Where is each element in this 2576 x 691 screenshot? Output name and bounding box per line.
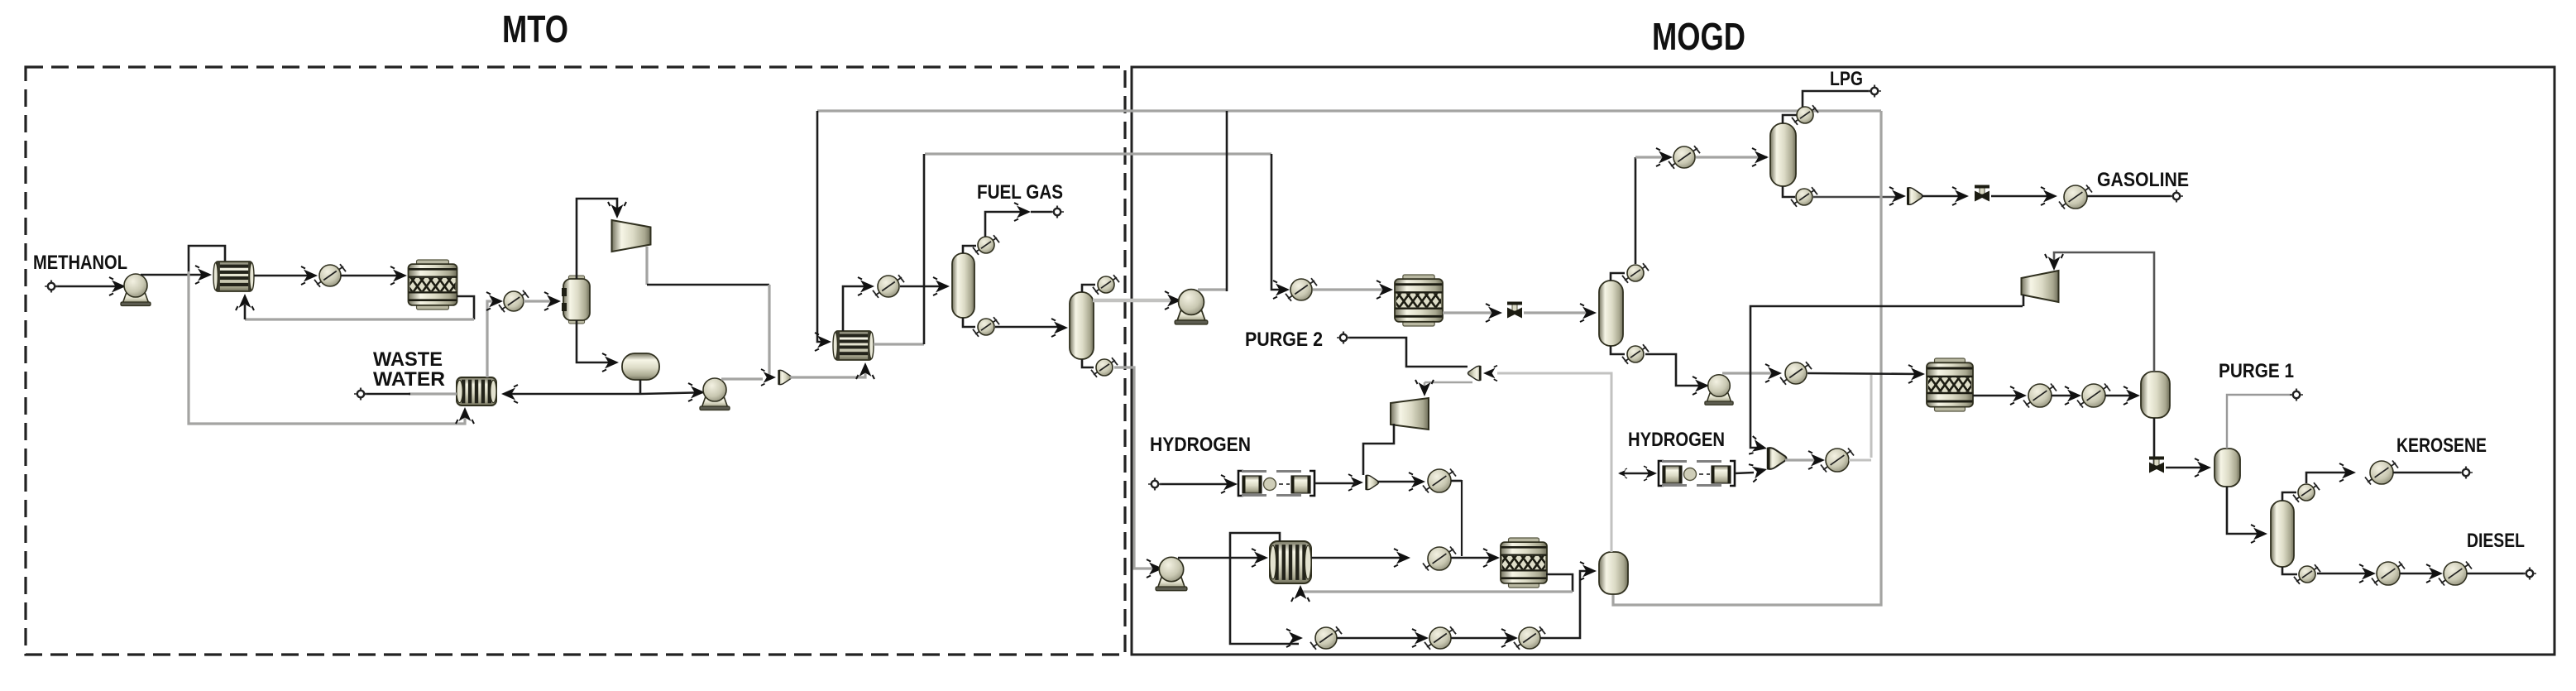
stream: E3 to column T1 (900, 286, 946, 288)
stream: K1 discharge down to junction (645, 247, 648, 285)
compressor K1 (612, 220, 651, 252)
stream: heavy recycle from flash F3 to line 1 (1613, 111, 1881, 605)
drum D1 (622, 353, 659, 380)
reactor R3 (hydrogenation) (1927, 358, 1973, 411)
stream: P2 discharge to junction (721, 377, 763, 380)
stream: HX3 hot outlet to line 2 (874, 343, 924, 345)
product terminator LPG (1868, 85, 1881, 98)
MOGD solid boundary box (1132, 67, 2554, 655)
stream: F3 vapor riser to splitter (1497, 373, 1611, 552)
stream: R3 effluent to cooler E8 (1973, 395, 2022, 397)
pump P1 (121, 274, 151, 306)
stream: E15 to E16 (1337, 637, 1424, 640)
stream: R2 effluent to valve (1443, 311, 1499, 314)
stream: E18 down to R4 feed (1451, 480, 1462, 482)
stream: K2 discharge to junction J3 (1363, 424, 1394, 475)
svg-text:HYDROGEN: HYDROGEN (1150, 434, 1251, 456)
stream: T5 overhead to condenser (2282, 492, 2296, 501)
reboiler of T1 (973, 317, 999, 337)
stream: GASOLINE product (2087, 195, 2171, 198)
stream: F4 liquid to column T5 (2227, 487, 2263, 534)
stream: DIESEL line to cooler E12 (2317, 573, 2371, 575)
column T1 (demethanizer) (952, 253, 974, 318)
stream: S1 to junction J3 (1314, 482, 1357, 485)
svg-text:METHANOL: METHANOL (33, 252, 127, 274)
heater E7 (1780, 362, 1812, 385)
stream: LPG product (1803, 91, 1870, 107)
stream: T3 overhead to condenser (1611, 273, 1625, 281)
splitter SP1 (1468, 366, 1481, 380)
stream: T4 bottoms to reboiler (1783, 186, 1795, 197)
stream: T2 bottoms to pump P4 (1114, 367, 1168, 569)
stream: E17 up to flash F3 (1540, 571, 1592, 638)
cooler E6 (2059, 185, 2092, 209)
stream: T2 bottoms to reboiler (1082, 359, 1094, 367)
feed terminator HYDROGEN 1 (1148, 478, 1161, 491)
heater E1 (314, 264, 346, 287)
stream: P5 to heater E7 (1722, 372, 1777, 374)
stream: SP1 to compressor K2 (1424, 381, 1472, 384)
product terminator PURGE 2 (1337, 332, 1350, 344)
cooler E9 (2077, 384, 2110, 408)
product terminator PURGE 1 (2290, 389, 2303, 401)
stream: V1 vapor to compressor K3 (2054, 252, 2154, 372)
cooler E17 (1514, 626, 1545, 650)
stream: V2 to cooler E6 (1991, 195, 2054, 198)
stream: E4 to reactor R2 (1313, 288, 1388, 290)
stream: P1 to HX1 (141, 274, 208, 276)
stream: HX4 to cooler E14 (1311, 557, 1406, 559)
stream: T3 bottoms to reboiler (1611, 346, 1625, 354)
stream: R1 effluent to HX1 cold inlet (457, 296, 474, 319)
column T4 (LPG column) (1770, 123, 1796, 186)
stream: T4 overhead to condenser (1783, 115, 1797, 123)
cooler E15 (1310, 626, 1342, 650)
stream: M2 to heater E10 (1785, 458, 1818, 461)
pump P2 (700, 378, 730, 410)
product terminator FUEL GAS (1051, 206, 1064, 218)
stream: S2 to mixer M2 (1735, 473, 1754, 473)
stream: H2 riser joins R3 feed (1870, 375, 1873, 458)
stream: hydrogen 2 feed (1620, 473, 1654, 475)
stream: HX4 hot outlet to cooler row (1230, 533, 1299, 644)
cooler E11 (2365, 461, 2398, 485)
stream: HX1 to heater E1 (254, 275, 314, 277)
product terminator KEROSENE (2459, 467, 2473, 479)
svg-text:GASOLINE: GASOLINE (2097, 169, 2189, 191)
feed terminator METHANOL (45, 281, 58, 293)
stream: E8 to cooler E9 (2052, 395, 2076, 397)
stream: R4 effluent to HX4 hot inlet (1546, 574, 1573, 592)
stream: T3 distillate to heater E5 (1635, 157, 1637, 264)
pump P5 (1705, 375, 1733, 405)
condenser of T5 (2293, 482, 2320, 502)
reboiler of T3 (1622, 344, 1649, 364)
stream: H2 mix joins before R4 (1461, 480, 1463, 556)
junction J2 on gasoline line (1889, 187, 1906, 205)
cooler E13 (2439, 562, 2472, 586)
pump P3 (recycle pump) (1175, 290, 1208, 324)
stream: J2 to valve V2 (1922, 195, 1964, 198)
stream: HX1 effluent loop to HX2 (hot side) (189, 246, 225, 273)
heat exchanger HX4 (feed/effluent) (1270, 541, 1311, 583)
stream: T1 bottoms to reboiler (963, 318, 975, 327)
stream: E9 to separator V1 (2105, 395, 2136, 397)
stream: E7 to reactor R3 (1808, 373, 1921, 374)
stream: V1 to column T3 (1524, 311, 1592, 314)
stream: T2 overhead to condenser (1082, 285, 1095, 292)
stream: K3 recycle to mixer M2 (1750, 306, 2023, 448)
reactor R1 (MTO fluid bed) (409, 260, 457, 310)
svg-text:DIESEL: DIESEL (2467, 530, 2525, 552)
stream: KEROSENE line to cooler E11 (2306, 473, 2352, 483)
condenser of T1 (973, 235, 999, 255)
cooler E14 (1423, 547, 1456, 571)
condenser of T2 (1093, 275, 1119, 295)
cooler E8 (2023, 384, 2056, 408)
reboiler of T5 (2294, 564, 2320, 584)
membrane separator S1 (hydrogen) (1238, 471, 1314, 496)
svg-text:WASTE: WASTE (373, 348, 443, 371)
stream: E5 to column T4 (1696, 156, 1767, 158)
stream: cross recycle line 1 (MOGD to MTO, y=134) (817, 109, 1881, 112)
stream: E2 to flash F1 (524, 300, 558, 302)
svg-text:MTO: MTO (502, 7, 568, 50)
stream: waste water product (409, 392, 457, 395)
svg-text:FUEL GAS: FUEL GAS (977, 181, 1063, 204)
column T3 (MOGD fractionator) (1599, 281, 1623, 346)
product terminator DIESEL (2523, 568, 2536, 580)
svg-text:WATER: WATER (373, 368, 445, 391)
valve V2 (1975, 185, 1989, 202)
stream: V3 to flash F4 (2166, 467, 2207, 469)
reboiler of T2 (1091, 357, 1118, 377)
valve V3 (2149, 457, 2164, 473)
stream: KEROSENE product (2393, 472, 2461, 474)
stream: V1 liquid to valve V3 (2153, 418, 2156, 468)
stream: line 2 to heater E4 (1271, 154, 1286, 290)
reactor R4 (hydro reactor) (1501, 538, 1547, 588)
stream: E10 riser to R3 feed (1849, 459, 1871, 462)
membrane separator S2 (hydrogen) (1659, 461, 1735, 486)
condenser of T3 (1622, 263, 1649, 283)
heater E4 (1286, 278, 1317, 301)
product terminator GASOLINE (2170, 190, 2183, 203)
stream: FUEL GAS product (985, 212, 1026, 237)
stream: HX2 to cooler E2 (487, 301, 500, 377)
stream: T5 bottoms to reboiler (2282, 567, 2297, 574)
stream: HX3 cold outlet to heater E3 (843, 286, 869, 331)
stream: recycle from line1 down to HX3 (817, 111, 827, 342)
pump P4 (MOGD feed pump) (1156, 557, 1187, 590)
cooler E12 (2372, 562, 2405, 586)
valve V1 (1507, 302, 1522, 319)
stream: PURGE 1 (2227, 395, 2291, 449)
stream: E14 to reactor R4 (1451, 557, 1496, 559)
cooler E2 (499, 290, 529, 312)
junction J3 (1348, 474, 1363, 491)
column T5 (kerosene/diesel splitter) (2271, 501, 2294, 567)
stream: DIESEL product (2467, 573, 2525, 575)
stream: T2 distillate to pump P3 (1093, 299, 1188, 303)
svg-text:PURGE 2: PURGE 2 (1245, 329, 1323, 351)
compressor K3 (2022, 271, 2059, 302)
reboiler of T4 (1791, 187, 1817, 207)
column T2 (deethanizer) (1070, 292, 1094, 359)
stream: J1 to HX3 cold inlet (790, 366, 865, 377)
stream: K3 outlet elbow (2023, 295, 2025, 306)
cooler E16 (1424, 626, 1456, 650)
stream: hydrogen 1 feed (1160, 483, 1233, 486)
mixer M2 (1768, 448, 1787, 469)
heat exchanger HX2 (waste water) (457, 377, 496, 405)
stream: J3 to cooler E18 (1377, 481, 1421, 483)
junction valve J1 (761, 369, 776, 386)
heater E3 (873, 275, 904, 298)
stream: T3 bottoms to pump P5 (1645, 354, 1716, 386)
reactor R2 (MOGD olefin reactor) (1395, 275, 1443, 326)
stream: T4 bottoms to gasoline junction (1813, 196, 1901, 199)
cooler E18 (1423, 469, 1456, 493)
compressor K2 (1391, 398, 1429, 429)
condenser of T4 (1792, 105, 1818, 125)
stream: METHANOL feed line (55, 286, 132, 288)
heater E10 (1821, 449, 1854, 473)
stream: F1 liquid to drum D1 (577, 320, 615, 362)
heat exchanger HX1 (feed/effluent) (213, 262, 254, 291)
product terminator WASTE WATER (354, 388, 367, 401)
svg-text:LPG: LPG (1830, 68, 1863, 90)
stream: P4 to HX4 (1178, 557, 1264, 559)
stream: E12 to cooler E13 (2400, 573, 2439, 575)
stream: cross line 2 (MTO to MOGD, y=186) (925, 152, 1271, 155)
stream: P3 discharge to line 1 (1198, 288, 1227, 290)
stream: F1 vapor to compressor K1 (577, 199, 617, 279)
svg-text:KEROSENE: KEROSENE (2396, 434, 2487, 457)
separator drum V1 (2141, 372, 2170, 418)
stream: E16 to E17 (1451, 637, 1514, 640)
stream: E1 to reactor R1 (341, 275, 404, 277)
heater E5 (1669, 146, 1700, 169)
stream: T1 overhead to condenser (963, 246, 976, 253)
flash drum F4 (2214, 449, 2240, 487)
stream: D1 liquid split header (639, 380, 642, 394)
flash drum F3 (1599, 552, 1628, 594)
svg-text:PURGE 1: PURGE 1 (2219, 360, 2294, 382)
heat exchanger HX3 (833, 331, 874, 360)
stream: PURGE 2 line (1348, 338, 1468, 367)
svg-text:MOGD: MOGD (1652, 15, 1745, 58)
flash drum F1 (562, 276, 590, 324)
MTO dashed boundary box (26, 67, 1125, 655)
stream: T1 reboiler to column T2 (995, 326, 1064, 329)
svg-text:HYDROGEN: HYDROGEN (1628, 429, 1725, 451)
